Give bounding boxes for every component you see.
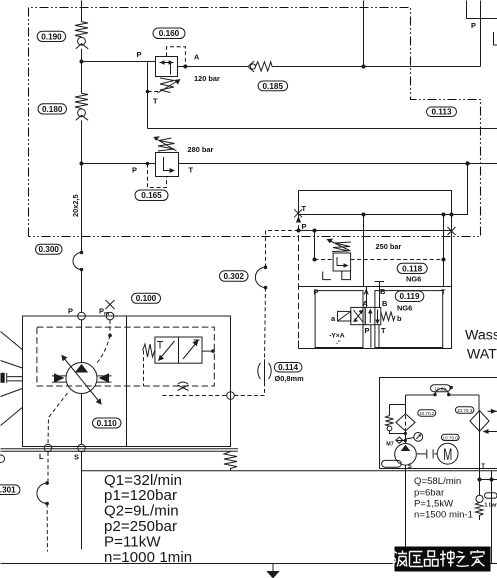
drive shaft coupling (cut)	[1, 332, 23, 426]
svg-text:Wasser: Wasser	[465, 328, 497, 344]
label stub left edge (cut)	[0, 455, 5, 463]
case drain dashed to L	[48, 393, 68, 444]
wire T column	[443, 215, 445, 287]
flow arrow up	[296, 216, 301, 223]
plate port labels P A B T	[314, 287, 447, 297]
svg-text:0.110: 0.110	[97, 419, 117, 428]
svg-text:p=6bar: p=6bar	[414, 487, 445, 498]
watermark box	[395, 547, 491, 572]
return branch line	[478, 471, 497, 564]
svg-text:250 bar: 250 bar	[376, 242, 402, 251]
check valve 1 bar	[476, 495, 484, 520]
wire P riser in unit	[81, 320, 83, 363]
port S circle	[78, 444, 86, 452]
drain brackets of 0.118	[323, 271, 351, 280]
svg-text:P: P	[471, 21, 476, 30]
orifice 0.114	[258, 359, 271, 382]
plate interface line	[299, 286, 452, 288]
svg-text:WATER: WATER	[467, 347, 497, 363]
subplate box right	[375, 291, 443, 348]
node small	[450, 386, 453, 389]
svg-text:-Y×A: -Y×A	[329, 333, 345, 340]
svg-text:P=11kW: P=11kW	[104, 534, 161, 551]
svg-text:0.185: 0.185	[263, 82, 284, 91]
svg-text:n=1500 min-1: n=1500 min-1	[414, 510, 473, 521]
svg-text:10.70.3: 10.70.3	[457, 408, 473, 413]
component top right (cut)	[467, 1, 497, 31]
label 0.113	[427, 107, 457, 117]
svg-text:-″: -″	[336, 341, 341, 347]
svg-text:P: P	[314, 288, 319, 297]
subplate box left	[315, 291, 363, 348]
wire P to valve 0.160	[82, 61, 156, 63]
label 0.165	[135, 190, 168, 201]
svg-text:0.302: 0.302	[223, 272, 244, 281]
label 10.92	[431, 385, 451, 392]
svg-text:M7: M7	[386, 441, 394, 447]
svg-text:10.70.0: 10.70.0	[443, 435, 459, 440]
valve pilot dashes	[144, 349, 215, 386]
manifold plate outline	[299, 191, 452, 349]
pump unit 0.100 outline	[23, 316, 231, 447]
label 0.110	[93, 418, 122, 428]
svg-text:P: P	[302, 222, 307, 231]
svg-text:20x2,5: 20x2,5	[71, 194, 80, 217]
svg-text:P=1,5kW: P=1,5kW	[414, 498, 454, 509]
drain port circle right edge	[163, 392, 265, 400]
wire riser to top component	[480, 1, 482, 67]
filter 10.70.2	[396, 414, 415, 431]
label 0.100	[132, 293, 161, 303]
shaft coupling	[417, 449, 437, 458]
pilot line valve 0.165	[148, 164, 167, 188]
svg-text:A: A	[194, 53, 200, 62]
solenoid a	[338, 311, 351, 321]
wire T drain line	[148, 128, 497, 130]
base plate lines	[1, 449, 238, 451]
wire A stub	[366, 287, 368, 308]
svg-text:b: b	[397, 314, 402, 323]
svg-text:T: T	[481, 464, 485, 470]
svg-text:M: M	[443, 446, 452, 465]
label small (cut)	[485, 493, 497, 499]
svg-text:Ø0,8mm: Ø0,8mm	[275, 374, 305, 383]
svg-text:P: P	[365, 326, 370, 335]
component bracket right edge (cut)	[494, 32, 497, 45]
wire main riser P	[81, 1, 83, 550]
tank drain arrow	[266, 564, 279, 578]
cooler 10.70.3	[470, 395, 497, 434]
svg-text:T: T	[441, 288, 446, 297]
svg-text:0.119: 0.119	[399, 292, 419, 301]
label 10.70.0	[441, 434, 459, 440]
svg-text:0.301: 0.301	[0, 486, 16, 495]
pilot dashed line to relief	[315, 259, 444, 261]
svg-text:0.113: 0.113	[431, 108, 451, 117]
label 10.70.3	[455, 407, 474, 413]
svg-text:P: P	[68, 307, 73, 316]
svg-text:0.300: 0.300	[38, 245, 59, 254]
label 0.190	[37, 31, 65, 41]
wire A line	[178, 66, 481, 68]
wire manifold P line	[299, 230, 452, 232]
svg-text:n=1000 1min: n=1000 1min	[104, 549, 192, 566]
drain hose below L	[37, 452, 49, 552]
svg-text:280 bar: 280 bar	[188, 145, 214, 154]
label 0.119	[395, 291, 424, 302]
hose in pilot line	[255, 266, 267, 290]
pilot line valve 0.160	[167, 47, 186, 67]
svg-text:T: T	[302, 204, 307, 213]
pilot dashed to orifice	[265, 288, 266, 360]
pressure relief valve 0.165	[153, 136, 178, 176]
port P circle	[78, 312, 86, 320]
svg-text:A: A	[363, 299, 369, 308]
hose with label	[406, 389, 480, 397]
svg-text:0.100: 0.100	[136, 294, 157, 303]
label 10.70.2	[418, 410, 436, 417]
wire riser x363	[363, 1, 365, 67]
node 466/163	[465, 161, 469, 165]
svg-text:0.165: 0.165	[141, 191, 162, 200]
text block main pump data	[104, 472, 192, 566]
node on riser to valve 0.160	[80, 60, 84, 64]
check valve 0.185	[248, 61, 272, 72]
wire manifold T line	[299, 214, 452, 216]
svg-text:S: S	[74, 453, 79, 462]
wire main pressure line	[82, 163, 497, 165]
label 0.301 (cut)	[0, 485, 20, 495]
svg-text:T: T	[153, 97, 158, 106]
plugged X above Pm	[106, 300, 115, 309]
svg-text:p1=120bar: p1=120bar	[104, 487, 177, 504]
pilot dashed elbow to pump unit	[235, 382, 265, 395]
svg-text:T: T	[189, 166, 194, 175]
wire T drain of 0.160	[146, 62, 161, 129]
svg-text:0.190: 0.190	[41, 32, 62, 41]
svg-text:0.180: 0.180	[42, 105, 63, 114]
label 0.180	[38, 104, 67, 114]
spring b	[381, 312, 395, 321]
node A junction	[183, 65, 187, 69]
svg-text:P: P	[137, 50, 142, 59]
system boundary dash-dot frame	[29, 8, 481, 237]
directional valve 0.119	[351, 307, 381, 324]
pilot supply dashed from P line	[266, 231, 299, 268]
svg-text:NG6: NG6	[406, 275, 421, 284]
circulating pump	[395, 444, 417, 466]
hose on main riser	[73, 251, 83, 272]
control dashed box	[37, 327, 214, 386]
check valve 0.180	[75, 93, 88, 120]
label 0.114	[274, 363, 302, 373]
svg-text:P: P	[132, 166, 137, 175]
svg-text:B: B	[382, 299, 387, 308]
tank bottom line	[1, 563, 497, 565]
pressure gauge	[406, 433, 423, 442]
svg-text:Q=58L/min: Q=58L/min	[414, 476, 461, 487]
port Pm circle	[106, 312, 114, 320]
svg-text:10.70.2: 10.70.2	[419, 411, 435, 416]
text block circulation pump data	[414, 476, 473, 520]
variable pump 0.110	[52, 355, 112, 405]
node filter bottom	[404, 432, 407, 435]
wire pilot drop from P	[314, 231, 316, 260]
bypass relief	[386, 405, 406, 434]
valve spring left	[143, 344, 155, 357]
label 0.160	[153, 28, 185, 39]
wire A column	[363, 215, 365, 287]
node 363/66	[362, 65, 366, 69]
svg-text:S: S	[408, 464, 412, 470]
svg-text:10.92: 10.92	[435, 386, 447, 391]
vent plug on B	[375, 282, 385, 308]
port L circle	[44, 444, 52, 452]
label 0.185	[258, 81, 288, 91]
tank top line	[82, 470, 497, 472]
vent symbol	[178, 382, 189, 391]
wire elbow to manifold T	[444, 164, 468, 215]
pressure reducing valve 0.160	[156, 57, 181, 94]
svg-text:0.114: 0.114	[278, 363, 298, 372]
check valve 0.190	[75, 22, 88, 49]
solenoid tag -YxA	[329, 333, 345, 347]
watermark glyphs	[393, 550, 485, 567]
plugged port X on P line	[448, 227, 456, 235]
label 0.302	[220, 271, 249, 282]
wire P T stubs below valve	[371, 325, 379, 348]
pressure relief valve 0.118	[327, 239, 352, 271]
M7 test point	[386, 437, 407, 447]
electric motor M	[437, 443, 458, 465]
svg-text:T: T	[381, 326, 386, 335]
control valve of pump	[155, 337, 202, 363]
svg-text:120 bar: 120 bar	[194, 74, 220, 83]
svg-text:B: B	[380, 287, 385, 296]
circulation unit outline	[380, 378, 497, 469]
svg-text:0.118: 0.118	[402, 264, 422, 273]
label 0.118	[397, 263, 427, 273]
svg-text:NG6: NG6	[397, 304, 412, 313]
damper spring	[224, 452, 237, 471]
suction pipe	[405, 465, 407, 557]
label 0.300	[36, 244, 63, 254]
svg-text:1 bar: 1 bar	[485, 503, 497, 509]
empty label	[382, 460, 402, 467]
plugged port X on T line	[294, 209, 302, 217]
cooler outlet	[479, 432, 481, 496]
node 147/163	[146, 162, 150, 166]
svg-text:0.160: 0.160	[159, 29, 180, 38]
filter supply riser	[405, 395, 407, 444]
wire S drop	[81, 394, 83, 445]
svg-text:L: L	[39, 452, 44, 461]
pilot dashed from Pm	[96, 320, 112, 365]
